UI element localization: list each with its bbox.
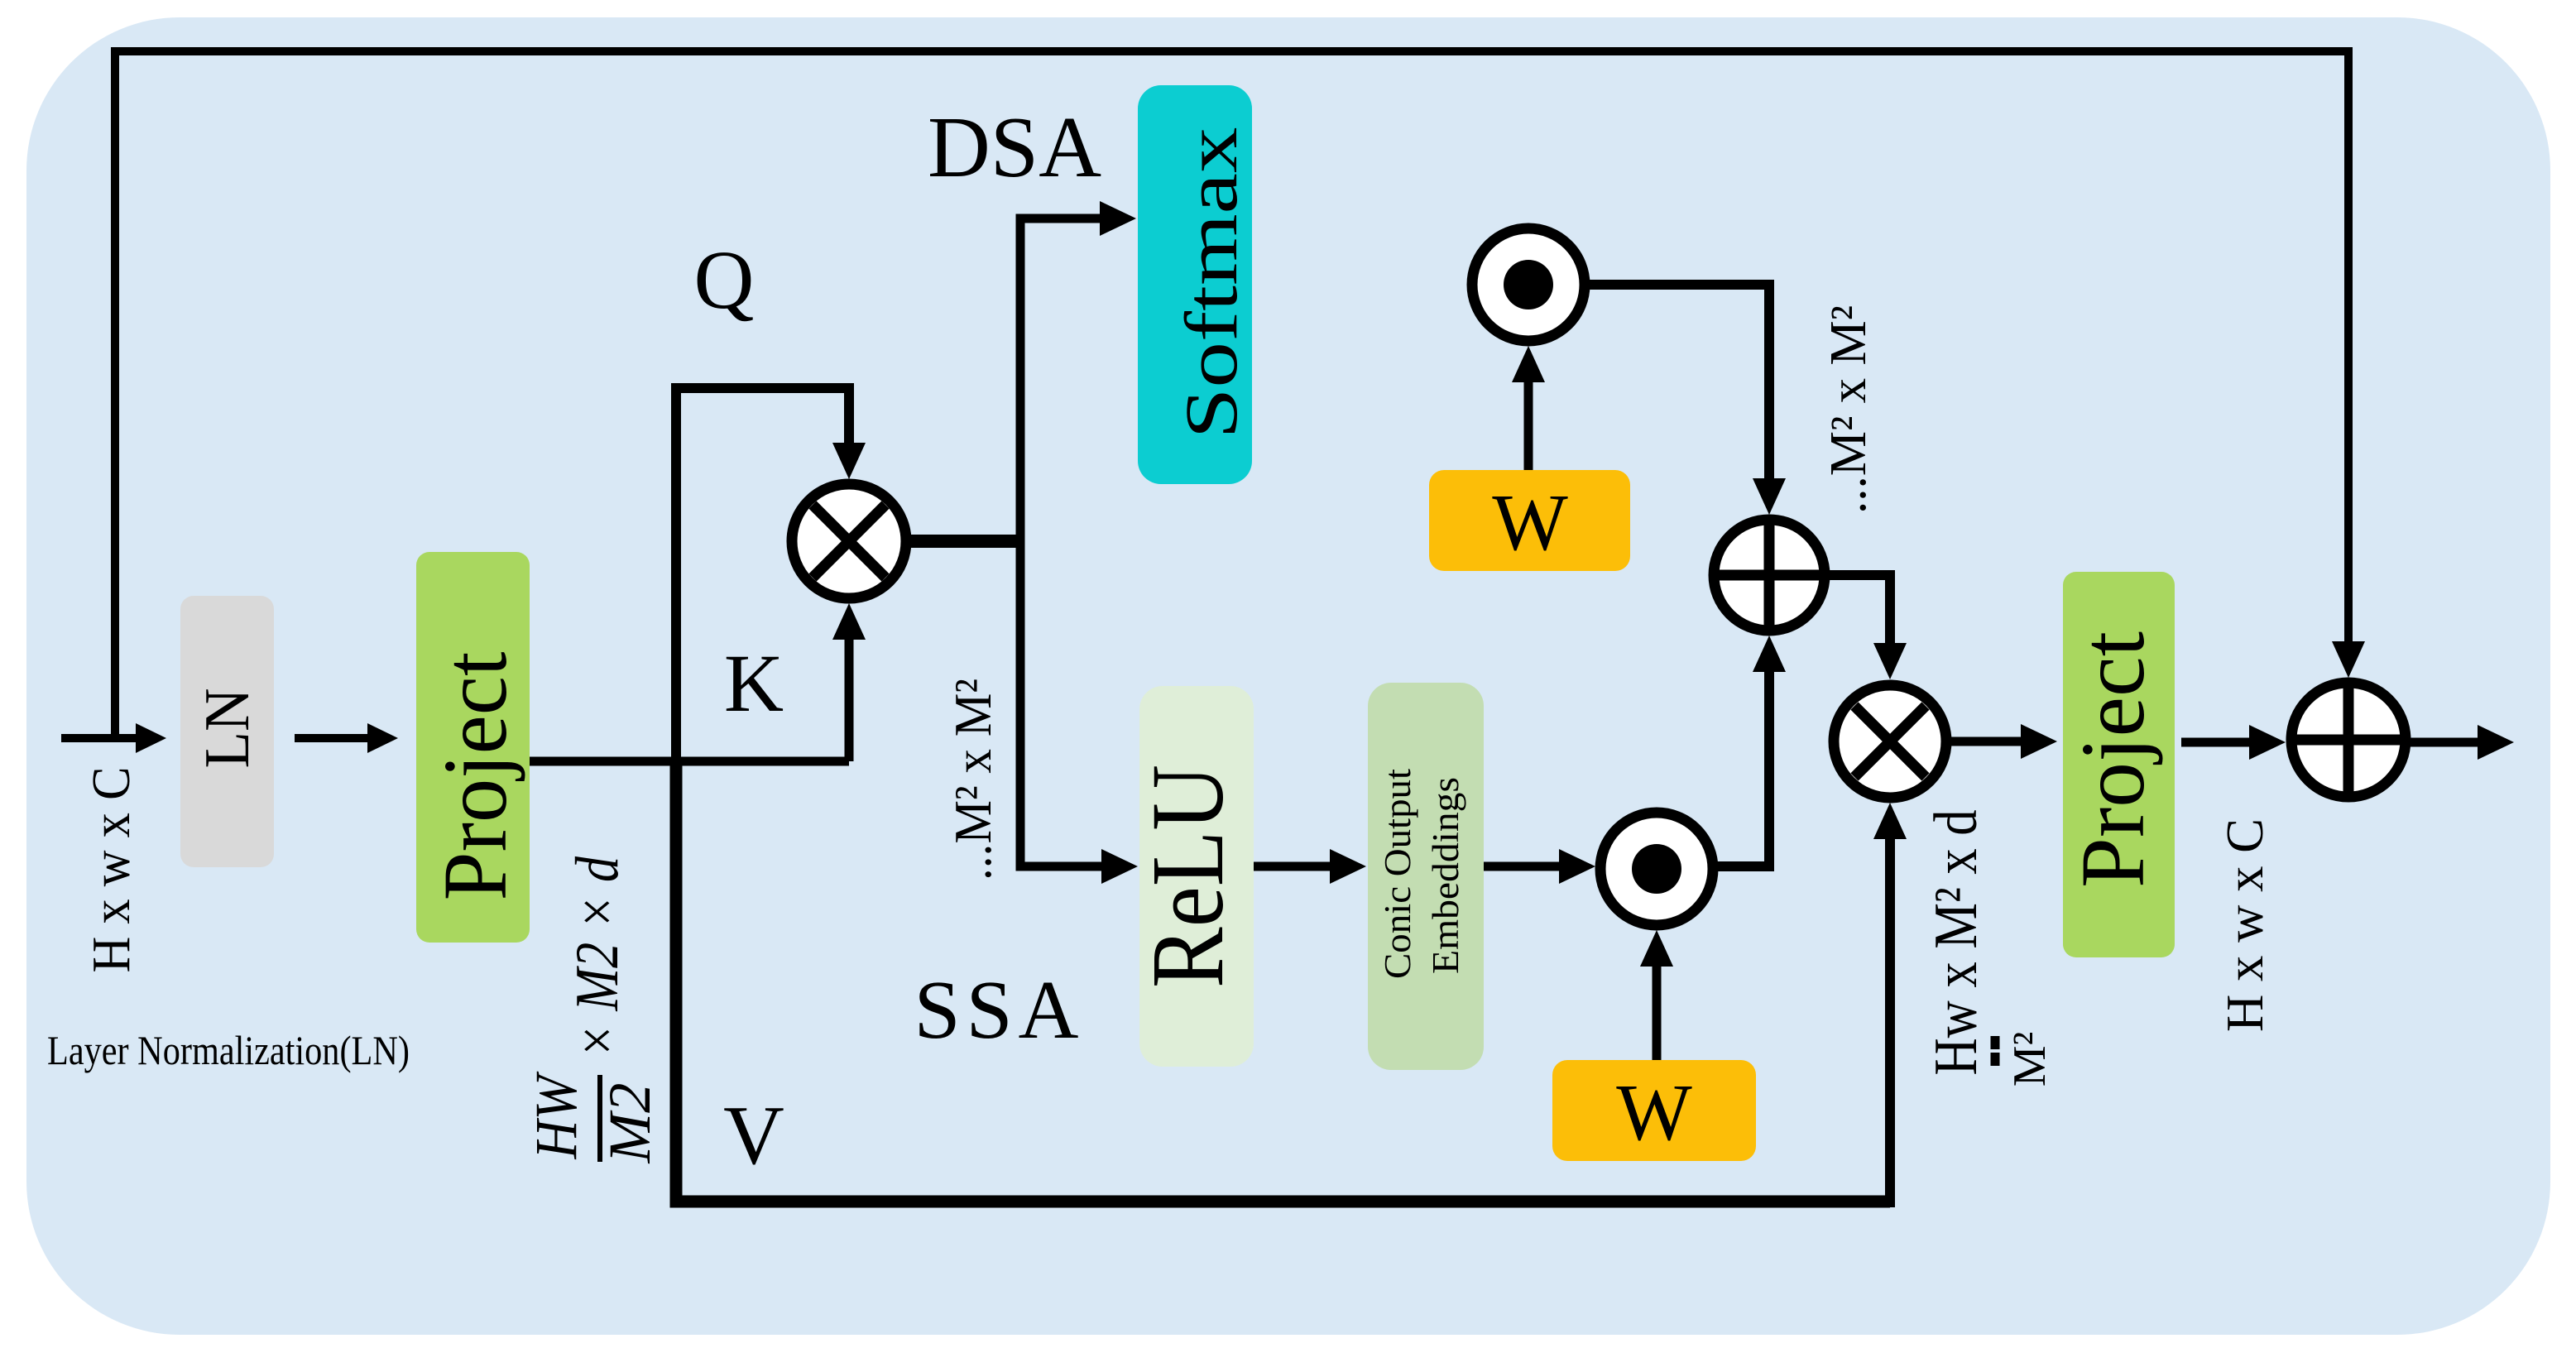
arrowhead into ReLU (1101, 849, 1138, 884)
wire attention junction vertical with DSA branch (1020, 218, 1100, 866)
wire W lower to dot2 (1653, 967, 1662, 1060)
wire Q branch (676, 388, 849, 761)
wire top feedback loop (115, 51, 2348, 738)
svg-text:Conic Output: Conic Output (1376, 769, 1418, 979)
arrowhead feedback into adder2 top (2332, 641, 2365, 678)
wire Conic to dot2 (1484, 862, 1559, 871)
svg-text:DSA: DSA (928, 98, 1101, 195)
svg-text:Project: Project (2062, 631, 2163, 888)
svg-text:K: K (724, 637, 784, 729)
wire LN to Project (295, 734, 369, 742)
arrowhead into adder1 bottom (1753, 636, 1786, 672)
arrowhead K into matmul1 bottom (832, 603, 866, 640)
wire SSA arrow to ReLU (1020, 862, 1101, 871)
wire dot1 to adder1 top (1585, 285, 1769, 478)
arrowhead W into dot2 (1640, 930, 1673, 967)
svg-text:M2: M2 (597, 1083, 663, 1164)
wire matmul1 output thick (908, 535, 1020, 548)
svg-text:Layer Normalization(LN): Layer Normalization(LN) (47, 1027, 410, 1073)
svg-text:Softmax: Softmax (1171, 127, 1253, 439)
fraction bar (597, 1075, 602, 1162)
svg-text:Project: Project (425, 652, 525, 901)
wire Project right to adder2 (2181, 738, 2249, 747)
arrowhead output (2478, 725, 2514, 760)
label HW/M2 x M2 x d formula (523, 856, 663, 1163)
arrowhead input into LN (136, 723, 166, 753)
svg-text:V: V (723, 1089, 784, 1182)
block W upper (1429, 470, 1630, 571)
arrowhead LN to Project (367, 723, 398, 753)
multiply node matmul2 (1834, 685, 1946, 798)
adder node 2 (2291, 683, 2406, 797)
wire adder1 to matmul2 (1825, 575, 1890, 643)
block Softmax (1138, 85, 1252, 484)
svg-text:M²: M² (2004, 1032, 2056, 1087)
arrowhead into Softmax (1100, 201, 1136, 236)
arrowhead into dot2 (1559, 849, 1595, 884)
arrowhead into Project right (2021, 724, 2057, 759)
arrowhead into adder2 (2249, 725, 2286, 760)
block Project right (2063, 572, 2175, 957)
dot-product node upper (1472, 228, 1585, 341)
svg-text:...M² x M²: ...M² x M² (1820, 305, 1877, 514)
wire W upper to dot1 (1524, 382, 1533, 470)
block Project left (416, 552, 530, 943)
wire dot2 to adder1 (1713, 672, 1769, 866)
arrowhead into matmul2 top (1873, 643, 1907, 679)
wire matmul2 to Project right (1946, 737, 2021, 746)
svg-text:...M² x M²: ...M² x M² (943, 679, 1002, 880)
svg-text:Embeddings: Embeddings (1425, 777, 1466, 974)
block LN (180, 596, 274, 867)
wire ReLU to Conic (1254, 862, 1330, 871)
svg-text:SSA: SSA (914, 963, 1079, 1056)
arrowhead V into matmul2 bottom (1873, 803, 1907, 839)
multiply node matmul1 (792, 484, 906, 598)
dot-product node lower (1600, 813, 1713, 925)
wire Project output trunk (530, 757, 849, 766)
block W lower (1552, 1060, 1756, 1161)
wire V up segment (1885, 839, 1895, 1207)
svg-text:H x w x C: H x w x C (2215, 818, 2274, 1032)
svg-text:× M2 × d: × M2 × d (564, 856, 631, 1058)
svg-text:Hw x M² x d: Hw x M² x d (1922, 810, 1990, 1076)
wire output (2411, 738, 2478, 747)
svg-text:W: W (1492, 478, 1568, 567)
svg-text:H x w x C: H x w x C (81, 767, 142, 973)
arrowhead W into dot1 (1512, 346, 1545, 382)
arrowhead into adder1 top (1753, 478, 1786, 515)
block ReLU (1139, 686, 1254, 1067)
svg-text:ReLU: ReLU (1131, 765, 1245, 988)
svg-text:LN: LN (191, 688, 262, 769)
wire K up segment (845, 640, 854, 761)
wire input stub (61, 734, 137, 742)
arrowhead Q into matmul1 top (832, 443, 866, 479)
fraction dashes (1991, 1036, 2000, 1066)
wire V branch bottom (676, 761, 1890, 1202)
svg-text:Q: Q (694, 233, 755, 326)
adder node 1 (1714, 520, 1825, 631)
arrowhead into Conic (1330, 849, 1366, 884)
block Conic Output Embeddings (1368, 683, 1484, 1070)
svg-text:HW: HW (523, 1071, 589, 1159)
svg-text:W: W (1616, 1068, 1692, 1157)
